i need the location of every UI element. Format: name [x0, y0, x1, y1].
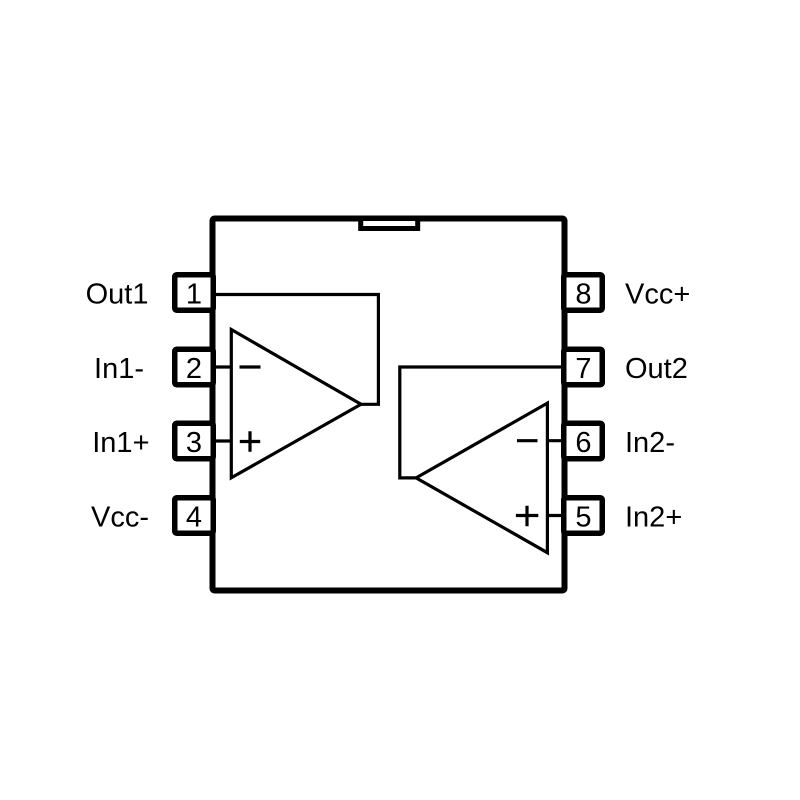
svg-text:Vcc-: Vcc-	[91, 502, 149, 534]
svg-text:In1-: In1-	[94, 353, 144, 385]
svg-text:Vcc+: Vcc+	[625, 279, 690, 311]
svg-text:2: 2	[186, 353, 202, 385]
svg-text:8: 8	[575, 279, 591, 311]
svg-text:5: 5	[575, 502, 591, 534]
svg-text:Out1: Out1	[86, 279, 149, 311]
svg-text:6: 6	[575, 427, 591, 459]
svg-text:1: 1	[186, 279, 202, 311]
svg-text:4: 4	[186, 502, 202, 534]
svg-text:In2-: In2-	[625, 427, 675, 459]
svg-text:Out2: Out2	[625, 353, 688, 385]
svg-text:In2+: In2+	[625, 502, 682, 534]
svg-text:In1+: In1+	[92, 427, 149, 459]
svg-text:3: 3	[186, 427, 202, 459]
svg-text:7: 7	[575, 353, 591, 385]
